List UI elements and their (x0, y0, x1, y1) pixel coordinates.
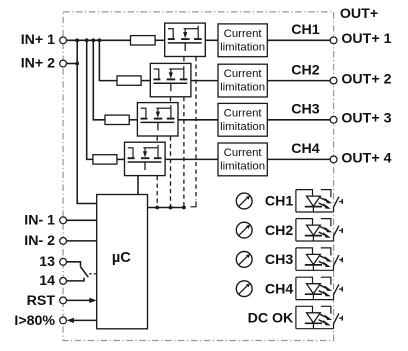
svg-text:limitation: limitation (220, 41, 265, 53)
svg-text:limitation: limitation (220, 160, 265, 172)
svg-text:OUT+ 4: OUT+ 4 (341, 150, 391, 166)
svg-text:CH4: CH4 (265, 281, 293, 297)
svg-text:CH1: CH1 (265, 194, 293, 210)
svg-text:OUT+: OUT+ (340, 6, 378, 22)
svg-text:CH4: CH4 (291, 141, 319, 157)
svg-text:µC: µC (112, 250, 131, 266)
svg-text:OUT+ 2: OUT+ 2 (341, 72, 391, 88)
svg-text:14: 14 (39, 273, 55, 289)
svg-text:limitation: limitation (220, 82, 265, 94)
svg-text:Current: Current (224, 28, 263, 40)
svg-text:CH3: CH3 (265, 252, 293, 268)
svg-text:OUT+ 1: OUT+ 1 (341, 31, 391, 47)
svg-text:IN+ 1: IN+ 1 (21, 32, 55, 48)
svg-text:I>80%: I>80% (14, 313, 55, 329)
svg-text:CH1: CH1 (291, 22, 319, 38)
svg-text:RST: RST (27, 293, 56, 309)
svg-text:limitation: limitation (220, 121, 265, 133)
svg-text:IN+ 2: IN+ 2 (21, 56, 55, 72)
svg-text:Current: Current (224, 107, 263, 119)
svg-text:Current: Current (224, 147, 263, 159)
svg-text:13: 13 (39, 254, 55, 270)
svg-text:DC OK: DC OK (248, 310, 294, 326)
svg-text:IN- 2: IN- 2 (24, 233, 55, 249)
svg-text:CH2: CH2 (291, 62, 319, 78)
svg-text:CH3: CH3 (291, 102, 319, 118)
svg-text:Current: Current (224, 68, 263, 80)
svg-text:IN- 1: IN- 1 (24, 213, 55, 229)
svg-text:CH2: CH2 (265, 223, 293, 239)
svg-text:OUT+ 3: OUT+ 3 (341, 111, 391, 127)
